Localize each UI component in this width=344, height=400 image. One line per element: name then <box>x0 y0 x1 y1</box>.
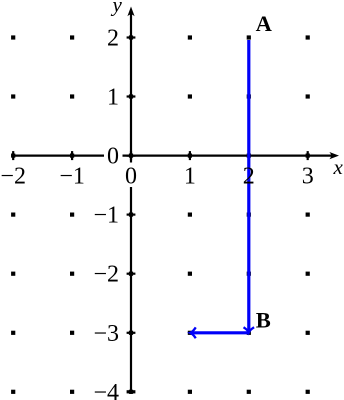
y-axis <box>130 14 132 394</box>
svg-text:0: 0 <box>107 143 119 169</box>
svg-text:−2: −2 <box>0 163 26 189</box>
svg-text:x: x <box>333 155 344 179</box>
svg-text:1: 1 <box>184 163 196 189</box>
vector arrowhead at B (pointing down) <box>245 328 254 333</box>
svg-text:−2: −2 <box>93 262 119 288</box>
svg-text:B: B <box>256 307 271 332</box>
svg-text:A: A <box>256 11 273 36</box>
y-axis tick marks <box>127 36 136 393</box>
svg-text:−1: −1 <box>93 203 119 229</box>
x-axis <box>11 155 332 157</box>
svg-text:3: 3 <box>302 163 314 189</box>
white knockout behind origin x-label 0 <box>124 163 139 188</box>
svg-text:y: y <box>111 0 123 17</box>
svg-text:1: 1 <box>107 85 119 111</box>
svg-text:0: 0 <box>125 163 137 189</box>
vector arrowhead at (1,-3) (pointing left) <box>190 328 195 337</box>
x-axis arrowhead <box>329 152 339 159</box>
lattice grid dots <box>11 35 310 394</box>
y-axis arrowhead <box>127 7 134 17</box>
svg-text:−4: −4 <box>93 380 119 400</box>
white knockout behind origin y-label 0 <box>104 147 123 166</box>
svg-text:2: 2 <box>107 26 119 52</box>
svg-text:2: 2 <box>243 163 255 189</box>
svg-text:−1: −1 <box>59 163 85 189</box>
x-axis tick marks <box>12 151 309 160</box>
vector shaft B to (1,-3) (horizontal) <box>191 331 249 334</box>
vector shaft A to B (vertical) <box>247 40 250 332</box>
svg-text:−3: −3 <box>93 321 119 347</box>
